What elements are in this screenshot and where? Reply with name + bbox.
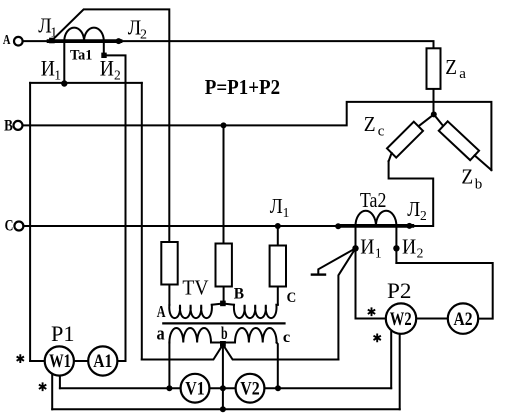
ammeter A1 [88, 346, 117, 375]
wire TV secondary mid [211, 342, 235, 344]
wire И1 to W1 [29, 83, 31, 361]
svg-text:1: 1 [50, 25, 57, 40]
svg-text:V2: V2 [240, 379, 260, 399]
svg-text:TV: TV [182, 276, 209, 300]
asterisk W1 voltage [39, 382, 46, 391]
wire W2 voltage drop [390, 332, 392, 388]
asterisk W2 current [368, 307, 375, 316]
svg-text:a: a [157, 323, 166, 344]
node b junction [220, 385, 226, 391]
svg-text:b: b [221, 323, 228, 343]
asterisk W1 current [17, 354, 24, 363]
node B tap [221, 122, 227, 128]
svg-text:a: a [459, 66, 466, 82]
wire W1 voltage drop [59, 374, 61, 388]
ammeter A2 [448, 303, 478, 333]
wire W2 left [356, 318, 479, 320]
wire phase A [23, 41, 434, 48]
svg-text:c: c [378, 123, 385, 139]
wire b drop [222, 346, 224, 409]
svg-text:И: И [360, 234, 374, 258]
wire ammeter row [30, 360, 125, 362]
wire Zb to B feed [475, 155, 492, 170]
node bus b junction [220, 406, 226, 412]
svg-text:V1: V1 [185, 379, 205, 399]
transformer Ta2 winding [356, 211, 397, 226]
wire voltmeter row [60, 387, 391, 389]
svg-text:Z: Z [364, 112, 376, 136]
svg-text:Л: Л [270, 194, 283, 218]
svg-text:b: b [475, 176, 483, 192]
svg-text:2: 2 [114, 67, 121, 82]
svg-text:И: И [402, 234, 416, 258]
wire phase B [23, 102, 492, 170]
wire Ta2 И2 lead [395, 226, 397, 263]
fuse TV B [216, 244, 232, 287]
TV primary winding left [169, 305, 212, 318]
node a junction [166, 385, 172, 391]
node C bar start [335, 223, 341, 229]
wire bottom bus [52, 408, 400, 410]
terminal A [14, 37, 23, 46]
svg-text:2: 2 [140, 28, 147, 43]
wire fuse B column [223, 125, 225, 243]
load Zc [387, 122, 423, 158]
svg-text:1: 1 [283, 205, 290, 220]
TV core [163, 322, 284, 324]
node Л2 Ta2 [406, 223, 412, 229]
svg-text:A: A [157, 302, 166, 321]
svg-text:c: c [283, 329, 290, 346]
svg-text:2: 2 [420, 208, 427, 223]
wire W1 to bottom bus [51, 372, 53, 409]
asterisk W2 voltage [374, 334, 381, 343]
node Л1 Ta2 [275, 223, 281, 229]
svg-text:И: И [100, 55, 114, 80]
TV primary winding right [234, 305, 278, 318]
node Л2 Ta1 [116, 38, 122, 44]
wire Zc to C feed [389, 153, 392, 161]
svg-text:B: B [4, 118, 13, 135]
wire a drop [168, 343, 170, 389]
wire Ta1 И1 lead [63, 41, 65, 84]
wire star to Zb [434, 114, 443, 126]
svg-text:W1: W1 [49, 352, 71, 372]
node c junction [275, 385, 281, 391]
svg-text:P1: P1 [51, 321, 75, 346]
TV secondary winding left [169, 328, 211, 343]
wire fuse C to TV primary [277, 287, 279, 305]
wire phase C [23, 161, 433, 226]
svg-text:B: B [234, 285, 245, 302]
svg-text:1: 1 [54, 67, 61, 82]
wire fuse A to TV primary [168, 285, 170, 305]
svg-text:Ta2: Ta2 [360, 188, 387, 212]
svg-text:W2: W2 [390, 310, 412, 330]
svg-text:Z: Z [445, 55, 457, 79]
svg-text:C: C [5, 218, 14, 235]
svg-text:Z: Z [461, 165, 473, 189]
wire bypass Л1 to TV fuse A [52, 9, 169, 242]
ground bar [312, 273, 325, 275]
fuse TV C [270, 246, 286, 287]
node И2 Ta2 [393, 245, 399, 251]
svg-text:P2: P2 [387, 278, 412, 303]
wire neutral from Ta2 И1 [338, 248, 355, 359]
voltmeter V2 [236, 374, 265, 403]
wire fuse C column [277, 226, 279, 246]
svg-text:Л: Л [407, 197, 420, 221]
svg-text:P=P1+P2: P=P1+P2 [205, 75, 280, 99]
load Za [427, 48, 441, 89]
wire W2 to bottom bus [399, 333, 401, 409]
node Л1 Ta1 [49, 38, 55, 44]
wire c drop [277, 343, 278, 389]
node Ta1 И2 pad [101, 53, 106, 58]
svg-text:A: A [3, 32, 11, 47]
svg-text:Ta1: Ta1 [70, 47, 92, 63]
wattmeter W1 [45, 346, 74, 375]
wire И1 to neutral [141, 83, 143, 360]
ground branch [318, 248, 355, 273]
svg-text:И: И [41, 55, 55, 80]
wire fuse B to TV primary [223, 287, 225, 304]
load Zb [439, 121, 479, 160]
wire star to Zc [418, 114, 433, 126]
transformer Ta2 primary bar [341, 224, 412, 228]
wire TV primary mid [212, 304, 234, 305]
svg-text:C: C [287, 290, 297, 306]
svg-text:2: 2 [417, 246, 424, 261]
node И1 Ta2 [352, 245, 358, 251]
transformer Ta1 winding [64, 28, 104, 41]
svg-text:A1: A1 [93, 352, 112, 372]
transformer Ta1 primary bar [49, 39, 121, 43]
fuse TV A [161, 242, 177, 285]
terminal C [14, 222, 23, 231]
svg-text:A2: A2 [454, 310, 473, 330]
load Za lead [433, 89, 435, 115]
voltmeter V1 [181, 374, 210, 403]
wire И1 header [30, 82, 142, 84]
node TV primary b [220, 301, 226, 307]
wire Ta1 И2 lead [103, 41, 105, 53]
node И1 junction [61, 80, 67, 86]
wattmeter W2 [386, 303, 416, 333]
svg-text:1: 1 [375, 246, 382, 261]
TV secondary winding right [235, 328, 277, 343]
wire Ta2 И1 to W2 [355, 226, 357, 319]
wire Ta2 И2 to A2 [396, 263, 492, 319]
wire neutral bus [142, 345, 339, 360]
node star point [431, 111, 437, 117]
terminal B [14, 121, 23, 130]
wire Ta1 И2 to A1 [104, 55, 126, 360]
node TV secondary b [220, 341, 226, 347]
